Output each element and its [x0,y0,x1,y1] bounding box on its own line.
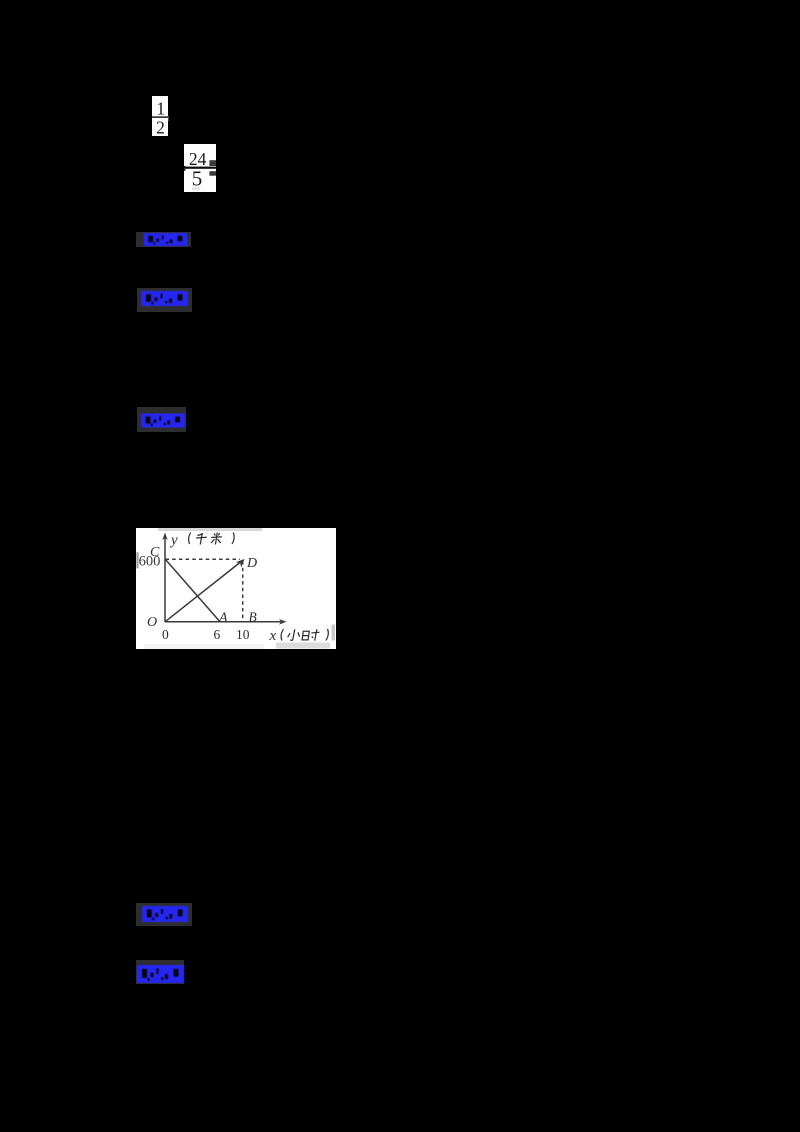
svg-text:y: y [169,532,178,548]
answer label block 2 (blue highlighted) [137,288,192,312]
glyph 小 [293,629,295,640]
answer label block 4 (blue highlighted) [136,903,192,926]
x-axis [165,620,284,622]
svg-text:5: 5 [192,167,203,191]
svg-text:10: 10 [236,627,250,642]
label (小时) [280,629,329,641]
line O to D [165,560,243,621]
scan artifact: top gray band [158,528,262,531]
left equals nubs [184,166,185,168]
svg-text:6: 6 [214,627,221,642]
figure: distance-time graph [136,528,336,649]
svg-text:A: A [218,609,228,624]
scan nub right of fraction 1/2 bar [168,116,170,122]
scan artifact: left gray tick [136,552,138,568]
glyph 千 [197,533,203,535]
x-axis arrowhead [279,619,287,625]
y-axis [164,538,166,622]
glyph 米 [211,535,222,538]
line C to A [166,559,221,621]
svg-text:1: 1 [156,99,165,119]
y-axis arrowhead [162,532,167,540]
svg-text:2: 2 [156,117,165,136]
answer label block 3 (blue highlighted) [137,407,186,432]
label (千米) [188,532,235,544]
faint smudge [192,187,200,190]
svg-text:O: O [147,615,157,630]
right equals sign (dark gray) [209,160,216,166]
fraction bar [184,167,216,169]
svg-text:B: B [249,609,257,624]
svg-text:x: x [269,628,277,644]
answer label block 1 (blue highlighted) [136,232,191,247]
scan artifact: bottom gray bands [276,642,330,648]
fraction bar [152,116,168,117]
formula image: fraction 1/2 [152,96,168,136]
svg-text:600: 600 [139,553,161,569]
svg-text:0: 0 [162,627,169,642]
dashed horizontal 600 to D [166,558,241,560]
dashed vertical D to B [242,561,244,619]
answer label block 5 (blue highlighted) [136,960,184,984]
formula image: fraction 24/5 with equals marks [184,144,216,192]
svg-text:D: D [246,555,257,570]
glyph 时 [302,631,309,640]
arrowhead at D [236,559,245,568]
